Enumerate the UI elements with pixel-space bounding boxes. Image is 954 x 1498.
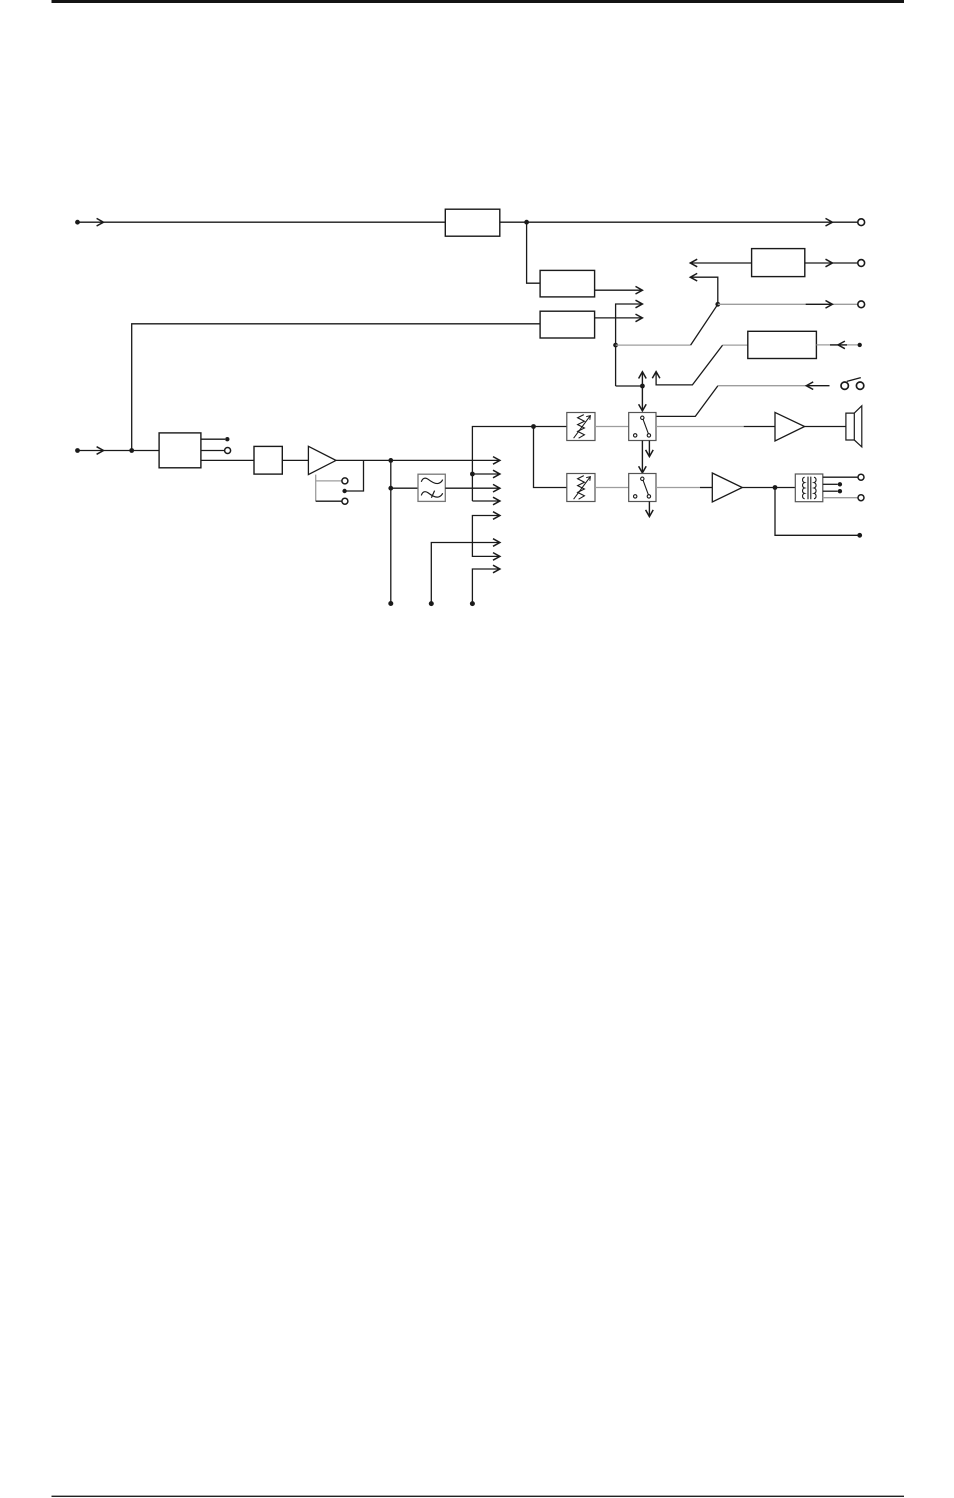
arrowhead B2 output <box>636 286 643 294</box>
hook switch lever <box>847 378 861 382</box>
arrow on IN2 wire <box>97 447 104 455</box>
node end dot x431.3 <box>429 601 434 606</box>
attenuator R1 zigzag <box>578 415 585 439</box>
node OUT3 open circle <box>858 260 865 267</box>
wire A to block B <box>201 459 254 461</box>
switch S1 right contact <box>647 434 650 437</box>
switch S1 box <box>629 413 656 441</box>
wire vertical net N2 x472.4 <box>472 427 567 502</box>
arrowhead OUT2 <box>826 301 833 309</box>
arrowhead main out <box>493 457 500 465</box>
wire grey into B5 left <box>723 344 748 346</box>
node T1 out2 dot <box>838 482 842 486</box>
junction J2 on N1 <box>613 343 618 348</box>
arrowhead OUT3 <box>826 259 833 267</box>
wire main drop x390.8 <box>390 460 392 603</box>
node end dot x472.4 <box>470 601 475 606</box>
wire IN2 to block A <box>78 450 160 452</box>
attenuator R2 arrow <box>574 477 591 500</box>
contact K0b open circle <box>342 498 348 504</box>
switch S2 lever <box>643 480 648 494</box>
switch S2 top contact <box>641 477 644 480</box>
arrowhead down into S1 <box>639 404 647 411</box>
wire N2 bottom arrow out <box>472 500 499 502</box>
arrowhead fan 7 <box>493 553 500 561</box>
node A2 open circle <box>225 448 231 454</box>
wire U0 output main <box>336 459 499 461</box>
wire grey B5 input from dot <box>816 344 857 346</box>
arrow black overlay hook <box>806 385 829 387</box>
arrowhead N2 bottom <box>493 497 500 505</box>
wire grey R2 to S2 <box>595 487 629 489</box>
attenuator R2 zigzag <box>578 476 585 500</box>
transformer T1 box <box>795 474 823 502</box>
junction J6 on main <box>388 458 393 463</box>
wire grey R1 to S1 <box>595 426 629 428</box>
arrowhead J8 <box>493 470 500 478</box>
contact K0a open circle <box>342 478 348 484</box>
arrowhead into B5 <box>838 341 845 349</box>
wire T1 output 2 <box>823 483 838 485</box>
block A line interface <box>159 433 201 468</box>
arrowhead left at hybrid line <box>690 273 697 281</box>
arrowhead S1 short <box>646 450 654 457</box>
wire grey S1 output <box>656 426 744 428</box>
switch S2 left contact <box>634 495 637 498</box>
arrowhead B3 output <box>636 314 643 322</box>
block B1 <box>445 209 500 236</box>
filter Z1 box <box>418 474 445 501</box>
arrowhead S2 down <box>646 510 654 517</box>
wire fan arrow 6 <box>431 543 499 604</box>
junction J5 input <box>129 448 134 453</box>
wire N1 bottom elbow to J4 <box>616 385 643 387</box>
wire S1 to S2 arrow <box>641 441 643 473</box>
wire J9 drop to channel 2 <box>534 427 567 488</box>
transformer T1 left coil <box>803 477 805 499</box>
node dot feeding B5 <box>858 343 862 347</box>
switch S2 box <box>629 474 656 502</box>
wire black to amp U1 <box>744 426 775 428</box>
node side tone end dot <box>857 533 862 538</box>
wire B1 output to OUT1 <box>500 221 858 223</box>
wire B to amp U0 <box>282 459 308 461</box>
block B <box>254 446 282 474</box>
wire S1 down arrow short <box>648 441 650 456</box>
arrow black overlay on OUT2 wire <box>806 303 832 305</box>
node IN1 terminal dot <box>75 220 80 225</box>
wire U1 to speaker <box>805 426 846 428</box>
junction J8 on N2 <box>470 472 475 477</box>
arrowhead Z1 out <box>493 484 500 492</box>
switch K0 lower throw <box>316 500 342 502</box>
wire fan arrow pair upper <box>472 516 499 557</box>
filter Z1 upper sine <box>421 478 442 483</box>
header bar <box>52 0 905 3</box>
junction J4 <box>640 384 645 389</box>
junction J9 channel feed <box>531 424 536 429</box>
wire J7 to filter Z1 <box>391 487 418 489</box>
wire left feed to block B3 <box>132 324 540 451</box>
wire K0 common up to main <box>345 460 364 491</box>
junction J7 filter feed <box>388 486 393 491</box>
block B3 <box>540 311 595 338</box>
arrowhead fan 6 <box>493 539 500 547</box>
arrowhead into S2 <box>639 466 647 473</box>
node end dot x390.8 <box>388 601 393 606</box>
wire grey S2 output <box>656 487 700 489</box>
switch K0 grey throw to contact <box>316 480 342 482</box>
wire S2 down arrow <box>648 502 650 517</box>
stub A2 with circle <box>201 450 224 452</box>
amp U0 triangle <box>308 446 336 474</box>
wire J3 up and left arrow <box>690 277 718 304</box>
wire J10 down to side tone <box>775 488 858 536</box>
arrow black overlay into B5 <box>830 344 847 346</box>
arrow on IN1 wire <box>97 218 104 226</box>
node A1 dot <box>225 437 229 441</box>
amp U2 triangle <box>712 473 742 502</box>
wire J8 arrow out <box>472 473 499 475</box>
attenuator R2 box <box>567 474 595 502</box>
junction J3 <box>715 302 720 307</box>
wire grey J3 to OUT2 <box>718 303 858 305</box>
arrowhead up J4 <box>639 372 647 379</box>
wire vertical net N1 at x615.6 <box>616 304 642 386</box>
wire grey hook line <box>718 385 806 387</box>
wire U2 to transformer T1 <box>742 487 795 489</box>
arrowhead hook left <box>806 382 813 390</box>
stub A1 with dot <box>201 438 225 440</box>
arrowhead left B4 <box>690 259 697 267</box>
switch S1 lever <box>643 419 648 433</box>
switch S1 top contact <box>641 416 644 419</box>
hook switch contact 2 <box>856 382 863 389</box>
wire IN1 to block B1 <box>78 221 446 223</box>
junction J10 <box>773 485 778 490</box>
arrowhead N1 output <box>636 300 643 308</box>
block B5 <box>748 331 817 358</box>
wire diagonal D1 <box>691 304 718 345</box>
wire left arrow from block B4 <box>690 262 751 264</box>
arrowhead fan 5 <box>493 512 500 520</box>
node IN2 terminal dot <box>75 448 80 453</box>
filter Z1 lower sine with slash <box>421 491 442 498</box>
wire grey T1 output 4 <box>823 497 858 499</box>
node OUT1 open circle <box>858 219 865 226</box>
block B4 <box>752 249 805 277</box>
wire B4 output to OUT3 <box>805 262 858 264</box>
attenuator R1 arrow <box>574 416 591 439</box>
wire Z1 output arrow <box>445 487 499 489</box>
node T1 out3 dot <box>838 489 842 493</box>
switch K0 grey riser under U0 <box>315 475 317 502</box>
node T1 out4 open circle <box>858 495 864 501</box>
wire diagonal D3 from switch S1 to hook <box>656 386 718 417</box>
arrowhead fan 8 <box>493 565 500 573</box>
arrowhead up 2 <box>652 372 660 379</box>
wire fan arrow 8 <box>472 569 499 604</box>
wire T1 output 3 <box>823 490 838 492</box>
wire J1 down to block B2 <box>527 222 541 283</box>
wire black to amp U2 <box>700 487 712 489</box>
wire T1 output 1 <box>823 476 858 478</box>
wire grey from J2 right <box>616 344 691 346</box>
amp U1 triangle <box>775 412 805 441</box>
wire double arrow vertical at switch S1 <box>641 372 643 411</box>
hook switch contact 1 <box>841 382 848 389</box>
node OUT2 open circle <box>858 301 865 308</box>
arrow on OUT1 wire <box>826 218 833 226</box>
switch S1 left contact <box>634 434 637 437</box>
speaker LS1 <box>846 406 862 447</box>
wire up arrow 2 to box B5 path <box>656 345 723 385</box>
junction J1 on B1 output <box>524 220 529 225</box>
switch S2 right contact <box>647 495 650 498</box>
wire B3 output arrow <box>595 317 642 319</box>
attenuator R1 box <box>567 413 595 441</box>
footer rule <box>52 1496 905 1497</box>
node K0 common dot <box>342 489 346 493</box>
node T1 out1 open circle <box>858 474 864 480</box>
block B2 <box>540 270 595 297</box>
wire B2 output arrow <box>595 289 642 291</box>
transformer T1 right coil <box>814 477 816 499</box>
transformer T1 core <box>808 477 811 500</box>
